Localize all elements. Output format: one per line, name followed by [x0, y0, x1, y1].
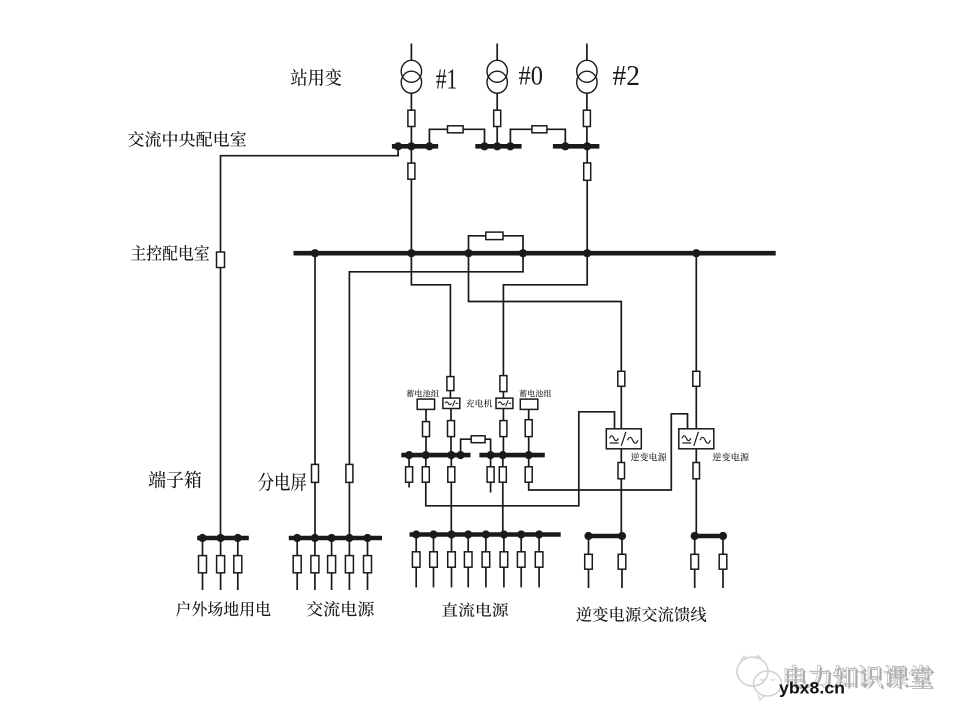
feeder drop inverter-2 output upper	[694, 536, 696, 554]
junction on outdoor bus	[217, 534, 225, 542]
bus tie 1-2 wire right	[463, 129, 484, 146]
DC busbar left section	[401, 453, 470, 458]
feeder drop inverter-1 output lower	[621, 569, 623, 588]
feeder drop AC panel upper	[348, 538, 350, 556]
feeder fuse DC panel	[500, 552, 508, 567]
feeder drop outdoor upper	[237, 538, 239, 556]
transformer T0 (two-winding)	[487, 60, 507, 93]
junction on DC panel bus	[500, 530, 508, 538]
wire AC panel feeder 2 lower	[348, 482, 350, 538]
feeder fuse DC panel	[535, 552, 543, 567]
wire main drop to inverter 2	[695, 253, 697, 371]
label charger	[466, 399, 492, 407]
fuse T1 drop	[408, 163, 415, 179]
junction on AC panel bus	[311, 534, 319, 542]
wire charger 2 to DC bus	[502, 437, 504, 456]
feeder drop AC panel lower	[296, 573, 298, 590]
feeder busbar AC panel	[289, 536, 382, 541]
feeder drop DC panel upper	[538, 535, 540, 552]
wire T2 fuse to bus	[586, 127, 588, 147]
wire inverter 1 AC input lower	[620, 386, 622, 429]
DC busbar right section	[479, 453, 544, 458]
DC bus tie wire right	[485, 439, 491, 455]
fuse charger 2 output	[500, 421, 507, 437]
fuse DC to DC panel 2	[499, 467, 506, 482]
wire DC to DC panel 1 upper	[450, 455, 452, 467]
junction on AC panel bus	[363, 534, 371, 542]
junction on main bus	[407, 249, 415, 257]
wire main drop to charger 1	[411, 253, 450, 376]
junction on DC bus left	[422, 451, 430, 459]
wire T0 HV lead	[496, 44, 498, 61]
feeder drop outdoor lower	[237, 573, 239, 590]
feeder fuse AC panel	[328, 556, 336, 573]
fuse below T1	[408, 110, 415, 126]
junction on bus 2	[506, 142, 514, 150]
wire T1 HV lead	[410, 44, 412, 61]
junction on DC bus left	[405, 451, 413, 459]
feeder drop outdoor lower	[220, 573, 222, 590]
feeder drop inverter-2 output upper	[722, 536, 724, 554]
wire T0 fuse to bus	[496, 127, 498, 147]
feeder drop inverter-2 output lower	[694, 569, 696, 588]
wire DC to inverter 2 route	[529, 414, 688, 490]
label battery 1	[407, 389, 439, 397]
inverter 1 box	[606, 429, 641, 449]
feeder fuse DC panel	[430, 552, 438, 567]
wire DC to DC panel 2 lower	[502, 482, 504, 534]
junction on DC panel bus	[464, 530, 472, 538]
watermark text	[785, 665, 932, 687]
feeder drop DC panel lower	[538, 567, 540, 587]
battery bank 1 box	[417, 399, 434, 409]
wire main drop to charger 2	[503, 253, 587, 375]
feeder drop outdoor upper	[202, 538, 204, 556]
junction on main bus	[519, 249, 527, 257]
wire DC feeder stub 1 lower	[408, 482, 410, 487]
feeder drop DC panel lower	[485, 567, 487, 587]
wire DC to DC panel 1 lower	[450, 482, 452, 534]
junction on DC bus left	[447, 451, 455, 459]
junction on main bus	[464, 249, 472, 257]
wire T2 LV lead	[586, 93, 588, 110]
junction on DC bus left	[457, 451, 465, 459]
junction on inverter-1 output bus	[584, 532, 592, 540]
wire main drop to inverter 1	[469, 253, 622, 371]
feeder drop outdoor upper	[220, 538, 222, 556]
junction on main bus	[692, 249, 700, 257]
feeder fuse outdoor	[217, 556, 225, 573]
label AC power	[307, 601, 374, 617]
feeder busbar outdoor	[197, 536, 249, 541]
junction on bus 1	[394, 142, 402, 150]
junction on DC panel bus	[447, 530, 455, 538]
feeder fuse outdoor	[199, 556, 207, 573]
junction on main bus	[311, 249, 319, 257]
busbar section 1 (AC central)	[392, 144, 438, 149]
inverter 2 box	[679, 429, 714, 449]
fuse below T2	[583, 110, 590, 126]
fuse DC to DC panel 1	[448, 467, 455, 482]
wire terminal-box feeder down	[220, 268, 222, 539]
label inverter AC feeders	[576, 606, 706, 622]
feeder busbar DC panel	[410, 532, 561, 537]
wire T2 drop upper	[586, 146, 588, 163]
wire T0 LV lead	[496, 93, 498, 110]
label DC power	[442, 602, 508, 617]
junction on bus 3	[583, 142, 591, 150]
fuse terminal-box feeder	[217, 252, 225, 268]
feeder drop DC panel lower	[451, 567, 453, 587]
junction on bus 2	[493, 142, 501, 150]
bus tie 1-2 fuse	[448, 126, 464, 133]
junction on DC panel bus	[535, 530, 543, 538]
junction on DC bus right	[487, 451, 495, 459]
wire DC to inverter 2 upper	[528, 455, 530, 467]
junction on outdoor bus	[198, 534, 206, 542]
fuse inverter 1 output	[618, 463, 625, 479]
transformer T2 (two-winding)	[577, 60, 597, 93]
wire AC panel feeder 1 lower	[314, 482, 316, 538]
transformer T1 (two-winding)	[401, 60, 421, 93]
feeder drop AC panel upper	[331, 538, 333, 556]
junction on AC panel bus	[328, 534, 336, 542]
junction on bus 1	[425, 142, 433, 150]
feeder drop inverter-1 output lower	[588, 569, 590, 588]
fuse AC panel feeder 1	[312, 464, 319, 482]
fuse charger 1 output	[448, 421, 455, 437]
feeder fuse AC panel	[364, 556, 372, 573]
wire battery 1 to DC bus	[425, 437, 427, 456]
charger 2 (rectifier) box	[496, 398, 513, 408]
wire charger 1 to DC bus	[450, 437, 452, 456]
fuse inverter 2 AC input	[693, 371, 700, 386]
wire DC to inverter 1 upper	[425, 455, 427, 467]
busbar section 2 (AC central)	[475, 144, 521, 149]
feeder drop AC panel lower	[367, 573, 369, 590]
feeder drop DC panel lower	[433, 567, 435, 587]
main bus tie wire left	[469, 236, 486, 253]
fuse inverter 2 output	[693, 463, 700, 479]
feeder drop AC panel lower	[331, 573, 333, 590]
wire inverter 1 output	[620, 449, 622, 463]
main busbar (control room)	[294, 251, 776, 256]
wire T1 drop upper	[410, 146, 412, 163]
fuse DC to inverter 1	[422, 467, 429, 482]
feeder drop DC panel lower	[467, 567, 469, 587]
svg-text:#2: #2	[613, 60, 641, 92]
feeder fuse AC panel	[293, 556, 301, 573]
main bus tie fuse	[486, 232, 503, 240]
wire T2 HV lead	[586, 44, 588, 61]
svg-text:ybx8.cn: ybx8.cn	[779, 679, 845, 698]
wire battery 2 to DC bus	[528, 437, 530, 456]
feeder drop DC panel upper	[433, 535, 435, 552]
wire T1 fuse to bus	[410, 127, 412, 147]
feeder fuse DC panel	[482, 552, 490, 567]
feeder drop outdoor lower	[202, 573, 204, 590]
main bus tie wire right	[503, 236, 523, 253]
watermark text shadow	[787, 667, 934, 689]
label inverter 1	[631, 453, 666, 462]
fuse inverter 1 AC input	[618, 371, 625, 386]
feeder fuse AC panel	[345, 556, 353, 573]
wire inverter 2 to feeder bus	[695, 479, 697, 536]
feeder drop DC panel upper	[485, 535, 487, 552]
feeder drop DC panel lower	[503, 567, 505, 587]
wire DC to DC panel 2 upper	[502, 455, 504, 467]
feeder fuse AC panel	[311, 556, 319, 573]
fuse DC feeder stub 1	[406, 467, 413, 482]
feeder drop AC panel lower	[348, 573, 350, 590]
junction on inverter-2 output bus	[691, 532, 699, 540]
DC bus tie fuse	[471, 436, 485, 443]
fuse charger 2 input	[500, 376, 507, 392]
svg-text:#1: #1	[436, 65, 458, 96]
wire charger 2 output	[502, 409, 504, 421]
wire DC feeder stub 2 upper	[490, 455, 492, 467]
junction on DC panel bus	[429, 530, 437, 538]
bus tie 1-2 wire left	[429, 129, 447, 146]
label distribution panel	[258, 472, 306, 490]
wire battery 1 output	[425, 409, 427, 421]
wire main drop to AC panel left	[314, 253, 316, 464]
feeder fuse inverter-1 output	[585, 554, 593, 569]
wire battery 2 output	[528, 409, 530, 419]
junction on DC bus right	[525, 451, 533, 459]
wire inverter 2 output	[695, 449, 697, 463]
feeder drop DC panel lower	[520, 567, 522, 587]
fuse below T0	[494, 110, 501, 126]
junction on bus 2	[480, 142, 488, 150]
feeder busbar inverter-1 output	[589, 534, 625, 539]
svg-text:#0: #0	[519, 60, 544, 90]
junction on DC bus right	[499, 451, 507, 459]
wire charger 1 input lower	[449, 391, 451, 399]
wire main drop elbow to AC panel right	[349, 253, 523, 464]
feeder drop DC panel upper	[503, 535, 505, 552]
fuse charger 1 input	[447, 377, 454, 391]
bus tie 2-3 fuse	[532, 126, 547, 133]
junction on DC panel bus	[412, 530, 420, 538]
feeder fuse inverter-2 output	[691, 554, 699, 569]
feeder drop DC panel upper	[415, 535, 417, 552]
fuse battery 1 output	[423, 422, 430, 437]
feeder drop DC panel upper	[467, 535, 469, 552]
busbar section 3 (AC central)	[553, 144, 600, 149]
junction on bus 1	[407, 142, 415, 150]
wire inverter 1 to feeder bus	[620, 479, 622, 536]
wire DC to inverter 1 route	[426, 412, 615, 506]
junction on inverter-2 output bus	[719, 532, 727, 540]
wire T1 LV lead	[410, 93, 412, 110]
label station transformer	[291, 68, 341, 86]
feeder drop AC panel upper	[296, 538, 298, 556]
fuse DC feeder stub 2	[487, 467, 494, 482]
battery bank 2 box	[520, 399, 538, 409]
DC bus tie wire left	[461, 439, 472, 455]
junction on outdoor bus	[234, 534, 242, 542]
wire T1 drop lower	[410, 179, 412, 253]
fuse DC to inverter 2	[525, 467, 532, 482]
label main control distribution room	[131, 245, 209, 261]
fuse AC panel feeder 2	[346, 464, 353, 482]
feeder drop AC panel lower	[314, 573, 316, 590]
feeder fuse DC panel	[464, 552, 472, 567]
fuse T2 drop	[584, 163, 591, 180]
junction on AC panel bus	[345, 534, 353, 542]
watermark logo	[737, 656, 782, 701]
feeder fuse inverter-1 output	[618, 554, 626, 569]
feeder drop DC panel lower	[415, 567, 417, 587]
feeder drop AC panel upper	[367, 538, 369, 556]
fuse battery 2 output	[525, 420, 532, 437]
junction on main bus	[583, 249, 591, 257]
feeder drop inverter-1 output upper	[588, 536, 590, 554]
junction on AC panel bus	[293, 534, 301, 542]
feeder fuse inverter-2 output	[719, 554, 727, 569]
feeder fuse DC panel	[412, 552, 420, 567]
bus tie 2-3 wire right	[547, 129, 565, 146]
label terminal box	[149, 471, 202, 489]
junction on inverter-1 output bus	[618, 532, 626, 540]
bus tie 2-3 wire left	[510, 129, 532, 146]
charger 1 (rectifier) box	[443, 398, 460, 408]
label AC central distribution room	[128, 131, 246, 147]
label battery 2	[519, 389, 551, 397]
feeder drop inverter-1 output upper	[621, 536, 623, 554]
feeder drop inverter-2 output lower	[722, 569, 724, 588]
wire bus1 to terminal-box feeder	[221, 146, 399, 252]
wire DC feeder stub 1 upper	[408, 455, 410, 467]
wire inverter 2 AC input lower	[695, 386, 697, 429]
wire charger 1 output	[450, 409, 452, 421]
junction on bus 3	[561, 142, 569, 150]
feeder drop DC panel upper	[451, 535, 453, 552]
junction on DC panel bus	[517, 530, 525, 538]
feeder fuse DC panel	[517, 552, 525, 567]
feeder drop DC panel upper	[520, 535, 522, 552]
label outdoor site power	[176, 601, 271, 616]
feeder drop AC panel upper	[314, 538, 316, 556]
wire DC feeder stub 2 lower	[490, 482, 492, 492]
wire T2 drop lower	[586, 180, 588, 253]
feeder fuse outdoor	[234, 556, 242, 573]
wire charger 2 input lower	[502, 392, 504, 399]
feeder fuse DC panel	[448, 552, 456, 567]
feeder busbar inverter-2 output	[693, 534, 724, 539]
junction on DC panel bus	[482, 530, 490, 538]
label inverter 2	[712, 453, 748, 462]
